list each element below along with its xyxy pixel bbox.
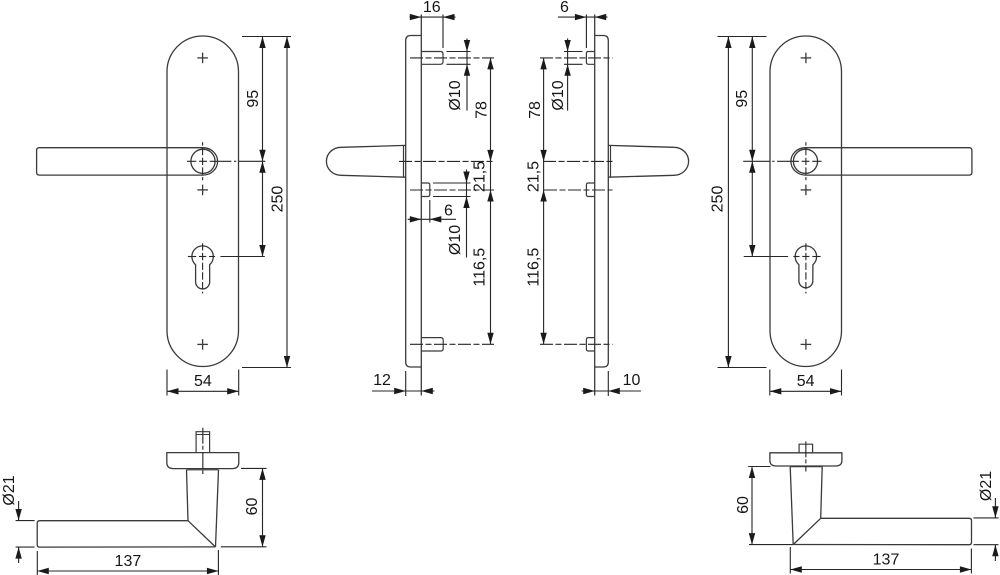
- svg-text:Ø10: Ø10: [447, 225, 464, 255]
- svg-text:137: 137: [873, 551, 900, 568]
- svg-text:10: 10: [623, 372, 641, 389]
- svg-text:250: 250: [710, 186, 727, 213]
- svg-text:54: 54: [797, 373, 815, 390]
- svg-text:78: 78: [474, 101, 491, 119]
- svg-text:137: 137: [115, 553, 142, 570]
- svg-text:21,5: 21,5: [471, 161, 488, 192]
- svg-text:250: 250: [269, 186, 286, 213]
- svg-text:78: 78: [527, 101, 544, 119]
- svg-text:Ø21: Ø21: [1, 475, 18, 505]
- svg-text:116,5: 116,5: [471, 248, 488, 287]
- svg-text:54: 54: [194, 373, 212, 390]
- svg-text:95: 95: [734, 90, 751, 108]
- svg-text:116,5: 116,5: [526, 248, 543, 287]
- svg-text:16: 16: [423, 0, 441, 16]
- svg-text:95: 95: [245, 90, 262, 108]
- svg-text:60: 60: [735, 496, 752, 514]
- svg-text:12: 12: [373, 372, 391, 389]
- svg-text:6: 6: [444, 202, 453, 219]
- svg-text:Ø10: Ø10: [550, 80, 567, 110]
- svg-text:Ø10: Ø10: [447, 80, 464, 110]
- svg-text:21,5: 21,5: [526, 161, 543, 192]
- svg-text:Ø21: Ø21: [978, 471, 995, 501]
- svg-text:60: 60: [244, 498, 261, 516]
- svg-text:6: 6: [560, 0, 569, 16]
